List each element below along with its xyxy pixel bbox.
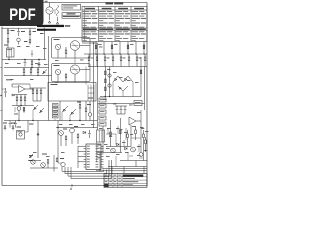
scattered component ref labels <box>5 46 149 161</box>
vertical rail x97 <box>97 43 99 130</box>
note box N1 <box>62 4 81 10</box>
hanging resistor R12 <box>31 60 33 68</box>
diode string D5 <box>62 106 76 121</box>
right bottom extra parts <box>102 134 147 169</box>
diag diode D9 <box>42 70 47 75</box>
top feed bus h28 <box>2 27 44 29</box>
rail resistor R30 <box>140 70 142 74</box>
left caps pair <box>2 88 14 97</box>
border tick <box>71 184 73 187</box>
capacitor trio <box>115 106 127 114</box>
rail stub x86 <box>85 67 87 85</box>
chassis inner ladder <box>88 85 94 101</box>
right chain resistors <box>105 67 112 97</box>
connector CN1 <box>84 144 104 170</box>
label above opamp <box>6 79 12 80</box>
right bus h66 <box>88 66 147 68</box>
left lower parts <box>14 107 25 121</box>
right bottom resistors <box>110 126 145 161</box>
hanging diode D8 <box>38 60 40 68</box>
left second tier <box>4 28 45 59</box>
link x58 <box>57 121 59 128</box>
bus h120 left <box>4 120 54 121</box>
right bottom fill verticals <box>108 128 144 152</box>
title block text <box>104 175 143 188</box>
connector left feed wires <box>57 127 83 168</box>
relay K1 <box>7 48 15 60</box>
lower caps <box>9 121 34 128</box>
nested return routing <box>62 160 112 179</box>
rail tie <box>82 42 98 43</box>
parts table mid header band <box>83 29 146 31</box>
extra right verticals <box>118 126 126 140</box>
mid resistors <box>77 101 92 121</box>
hanging cap C6 <box>24 60 27 67</box>
right small group <box>30 88 46 101</box>
right bottom diodes <box>117 143 128 149</box>
diag diodes mid <box>33 105 44 121</box>
control box B4 <box>17 127 25 140</box>
mid bus h120 <box>54 120 98 121</box>
verticals bottom-left <box>25 121 40 159</box>
op-amp U2 <box>12 84 34 93</box>
left mid ladder <box>12 95 34 111</box>
output module box with meter Q2 <box>52 64 91 82</box>
transformer T1 <box>55 5 59 24</box>
bottom small transistor <box>56 158 65 167</box>
hanging links from table <box>95 42 145 55</box>
right bus h103 <box>98 103 145 105</box>
parts table header text <box>85 8 144 9</box>
right bottom buses <box>96 147 147 174</box>
badge corner label <box>45 0 48 3</box>
left stack boxes <box>53 104 59 118</box>
PDF badge <box>0 0 44 26</box>
left top components <box>7 28 36 38</box>
note box N2 <box>62 13 81 19</box>
right rail x141 <box>140 57 142 97</box>
svg-text:PDF: PDF <box>9 5 36 24</box>
trim pot box <box>134 101 142 106</box>
vertical rail x93 <box>93 43 95 128</box>
bus h67 <box>4 67 49 68</box>
vertical rail x48 <box>48 36 50 121</box>
right rail x144 <box>144 67 146 111</box>
connector stack left <box>99 98 106 126</box>
op-amp U3 <box>129 110 141 125</box>
left border terminal stubs <box>0 68 2 111</box>
box links <box>74 58 76 83</box>
chassis box <box>48 83 96 102</box>
title block <box>104 174 147 188</box>
bottom-left cluster transistors <box>28 154 58 172</box>
mid vertical x60 <box>59 101 61 121</box>
parts table grid <box>82 7 147 42</box>
box B6 <box>97 130 105 142</box>
main right bus h54 <box>84 53 147 55</box>
output module box with meter Q1 <box>52 38 91 59</box>
sheet mark A <box>70 187 73 191</box>
capacitor C7 <box>31 50 33 57</box>
below bus parts <box>88 54 146 67</box>
bus h75 <box>4 75 52 76</box>
SCR D1 <box>3 123 15 131</box>
stack link wire <box>54 119 56 121</box>
border frame of schematic sheet <box>2 3 147 186</box>
pre-connector parts <box>56 126 98 146</box>
verticals to bottom right <box>103 118 141 153</box>
right bus h96 <box>100 96 141 97</box>
right bottom transistors <box>111 147 143 156</box>
diode string diagonal <box>113 76 133 97</box>
parts table title TABLA DE COMPONENTES <box>106 2 124 4</box>
bus h59 <box>2 59 46 60</box>
B6 ladder cells <box>97 142 101 162</box>
parts table row text <box>83 11 146 41</box>
warning note text <box>37 25 70 31</box>
motor M1 <box>46 3 53 24</box>
interbus resistors <box>23 68 39 76</box>
